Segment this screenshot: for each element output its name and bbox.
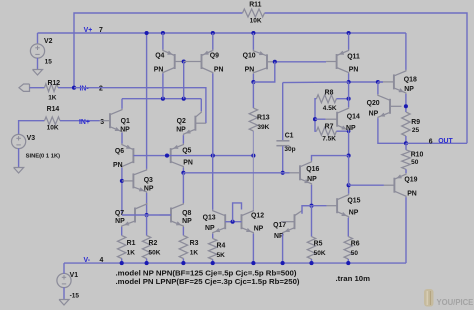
svg-text:.tran 10m: .tran 10m <box>336 276 371 283</box>
svg-text:-15: -15 <box>70 292 80 299</box>
svg-text:25: 25 <box>412 127 420 134</box>
wire Q11 collector row <box>349 81 383 83</box>
svg-text:Q18: Q18 <box>404 76 417 83</box>
svg-text:15: 15 <box>45 59 53 66</box>
ground below V2 <box>33 70 43 76</box>
wire Q5 collector down <box>182 168 184 173</box>
wire Q11 collector to R8 junction <box>348 82 350 99</box>
label model PNP directive <box>116 279 300 286</box>
node R5 rail junction <box>309 261 313 265</box>
svg-text:Q12: Q12 <box>251 213 264 220</box>
wire Q4 emitter <box>162 33 164 50</box>
transistor Q14 <box>326 107 360 132</box>
svg-text:Q20: Q20 <box>367 100 380 107</box>
svg-text:50: 50 <box>411 159 419 166</box>
node Q12 diode junction <box>231 220 235 224</box>
resistor R10 <box>402 150 424 170</box>
svg-text:PN: PN <box>214 66 224 73</box>
node V+ Q10 junction <box>251 31 255 35</box>
wire Q10 diode connection <box>253 62 274 82</box>
wire output row <box>406 142 467 144</box>
wire Q19 base bus <box>349 184 384 186</box>
svg-text:NP: NP <box>115 218 125 225</box>
wire Q11 collector down <box>348 74 350 83</box>
svg-text:OUT: OUT <box>438 138 453 145</box>
transistor Q13 <box>203 210 233 234</box>
svg-text:R13: R13 <box>257 115 270 122</box>
wire V+ corner to Q18 collector <box>405 33 407 70</box>
node R7 Q14 emitter junction <box>347 129 351 133</box>
svg-text:NP: NP <box>176 126 186 133</box>
wire Q2 collector up <box>200 99 202 112</box>
wire output to R10 <box>405 143 407 150</box>
voltage source V2 <box>30 38 52 65</box>
svg-text:30p: 30p <box>284 146 295 153</box>
transistor Q20 <box>367 94 402 118</box>
wire Q12 diode loop <box>233 203 242 222</box>
node Q9 collector junction <box>211 154 215 158</box>
wire Q7 Q8 base bus <box>122 214 171 216</box>
transistor Q15 <box>327 194 361 218</box>
svg-text:Q6: Q6 <box>115 148 124 155</box>
wire Q13 collector up <box>212 156 214 210</box>
node V+ Q3 junction <box>145 31 149 35</box>
ground below V3 <box>14 168 24 174</box>
svg-text:7: 7 <box>99 27 103 34</box>
wire Q18 base <box>378 81 383 83</box>
svg-text:50K: 50K <box>149 250 161 257</box>
wire R7 right <box>336 130 348 132</box>
svg-text:R6: R6 <box>351 240 360 247</box>
resistor R13 <box>249 108 270 131</box>
label OUT net <box>429 138 454 145</box>
wire Q18 emitter down <box>405 94 407 112</box>
resistor R1 <box>118 236 136 259</box>
transistor Q8 <box>160 203 193 227</box>
resistor R9 <box>402 112 421 136</box>
wire port to R12 <box>30 87 45 89</box>
svg-text:Q11: Q11 <box>347 53 360 60</box>
svg-text:Q9: Q9 <box>210 53 219 60</box>
node C1 bottom junction <box>281 171 285 175</box>
svg-text:Q7: Q7 <box>115 210 124 217</box>
wire Q8 collector up <box>182 173 184 203</box>
svg-text:NP: NP <box>120 126 130 133</box>
svg-text:R5: R5 <box>314 240 323 247</box>
label SINE value of V3 <box>26 154 61 160</box>
node tail junction <box>145 213 149 217</box>
svg-text:NP: NP <box>205 225 215 232</box>
wire second stage bus <box>183 172 289 174</box>
svg-text:10K: 10K <box>250 18 262 25</box>
svg-text:R2: R2 <box>149 240 158 247</box>
wire R5 column <box>311 206 313 237</box>
svg-text:NP: NP <box>369 111 379 118</box>
wire R6 to rail <box>347 259 349 263</box>
wire Q12 collector up <box>252 209 254 211</box>
wire Q15 emitter to R6 <box>347 218 349 237</box>
wire Q10 emitter <box>252 33 254 50</box>
wire IN- to Q2 base <box>74 88 206 124</box>
svg-text:Q5: Q5 <box>182 148 191 155</box>
resistor R11 <box>243 2 265 25</box>
svg-text:Q1: Q1 <box>121 118 130 125</box>
svg-text:V1: V1 <box>70 272 79 279</box>
svg-text:Q15: Q15 <box>347 197 360 204</box>
node Q11 collector junction <box>347 80 351 84</box>
svg-text:NP: NP <box>144 186 154 193</box>
transistor Q12 <box>242 210 265 234</box>
wire Q14 collector up <box>348 99 350 108</box>
wire R4 to rail <box>212 260 214 264</box>
label V- net <box>84 257 104 264</box>
svg-text:1K: 1K <box>127 250 136 257</box>
transistor Q16 <box>290 161 320 185</box>
svg-text:PN: PN <box>183 160 193 167</box>
wire Q16 emitter down <box>311 185 313 206</box>
node Q20 base junction <box>404 104 408 108</box>
wire Q6 collector down <box>121 168 123 215</box>
resistor R4 <box>209 239 226 260</box>
wire R5 to rail <box>311 259 313 263</box>
svg-text:V3: V3 <box>27 135 36 142</box>
capacitor C1 <box>276 132 295 152</box>
wire top feedback right segment <box>265 13 468 143</box>
svg-text:NP: NP <box>307 176 317 183</box>
svg-text:NP: NP <box>254 225 264 232</box>
wire Q9 emitter <box>212 33 214 50</box>
wire Q17 emitter to rail <box>282 234 284 263</box>
svg-text:R12: R12 <box>48 80 61 87</box>
ground below V1 <box>59 300 69 306</box>
svg-text:NP: NP <box>404 86 414 93</box>
wire Q14 base <box>315 118 326 120</box>
svg-text:V2: V2 <box>44 38 53 45</box>
wire Q3 emitter down to mirror <box>146 193 148 215</box>
svg-text:NP: NP <box>349 210 359 217</box>
wire C1 branch top <box>283 81 349 84</box>
svg-text:PN: PN <box>245 66 255 73</box>
svg-text:39K: 39K <box>257 124 269 131</box>
wire V+ to Q3 collector <box>146 33 148 169</box>
wire mirror bases to bus <box>183 62 185 99</box>
wire Q19 collector to rail <box>405 197 407 263</box>
node Q4 collector junction <box>161 97 165 101</box>
wire Q13 emitter to R4 <box>212 234 214 239</box>
wire R8 left column <box>315 99 316 132</box>
wire Q1 emitter to Q6 emitter <box>121 133 123 144</box>
wire R1 to rail <box>121 259 123 264</box>
svg-text:R4: R4 <box>217 243 226 250</box>
transistor Q11 <box>326 50 360 74</box>
svg-text:1K: 1K <box>190 250 199 257</box>
node Q12 rail junction <box>251 261 255 265</box>
wire V+ rail pin 7 <box>38 32 406 34</box>
node Q15 base junction <box>309 204 313 208</box>
svg-text:R7: R7 <box>325 124 334 131</box>
resistor R7 <box>316 124 336 143</box>
svg-text:R3: R3 <box>190 240 199 247</box>
svg-text:NP: NP <box>346 125 356 132</box>
label V+ net <box>84 27 103 34</box>
resistor R14 <box>45 106 61 131</box>
svg-text:R14: R14 <box>47 106 60 113</box>
node R4 rail junction <box>211 261 215 265</box>
svg-text:R10: R10 <box>411 152 424 159</box>
node bias column junction <box>251 154 255 158</box>
node Q10 collector diode junction <box>251 80 255 84</box>
transistor Q17 <box>273 210 302 241</box>
wire V3 minus lead <box>18 148 20 167</box>
transistor Q4 <box>154 50 184 74</box>
label IN- net <box>80 85 104 92</box>
wire Q9 collector down <box>212 74 214 156</box>
svg-text:50: 50 <box>351 250 359 257</box>
wire Q7 emitter to R1 <box>121 227 123 236</box>
transistor Q19 <box>384 173 418 197</box>
resistor R2 <box>142 236 160 259</box>
transistor Q2 <box>176 111 206 135</box>
svg-text:.model NP NPN(BF=125 Cje=.5p C: .model NP NPN(BF=125 Cje=.5p Cjc=.5p Rb=… <box>116 270 297 277</box>
resistor R3 <box>179 236 198 259</box>
node V+ Q11 junction <box>347 31 351 35</box>
node Q5 base junction <box>165 154 169 158</box>
svg-text:C1: C1 <box>285 132 294 139</box>
svg-text:IN+: IN+ <box>79 119 90 126</box>
transistor Q5 <box>167 144 193 168</box>
voltage source V3 <box>12 134 36 148</box>
svg-text:4.5K: 4.5K <box>323 105 337 112</box>
svg-text:PN: PN <box>154 66 164 73</box>
svg-text:IN-: IN- <box>80 85 90 92</box>
transistor Q1 <box>100 109 131 134</box>
svg-text:Q2: Q2 <box>177 118 186 125</box>
node Q4 Q9 base junction <box>182 59 186 63</box>
node Q3 base junction <box>120 179 124 183</box>
wire Q2 emitter to Q5 emitter <box>182 135 184 143</box>
resistor R12 <box>45 80 61 101</box>
svg-text:Q13: Q13 <box>203 215 216 222</box>
svg-text:1K: 1K <box>48 95 57 102</box>
wire Q20 collector up <box>377 82 379 94</box>
resistor R5 <box>307 237 326 259</box>
wire tail node to R2 <box>146 215 148 236</box>
svg-text:Q8: Q8 <box>182 210 191 217</box>
node second-stage takeoff junction <box>181 171 185 175</box>
svg-text:7.5K: 7.5K <box>322 135 336 142</box>
node Q19 base row junction <box>347 183 351 187</box>
voltage source V1 <box>57 272 79 299</box>
wire Q12 emitter to rail <box>252 234 254 263</box>
wire Q1 collector up <box>121 99 123 109</box>
svg-text:Q16: Q16 <box>306 166 319 173</box>
port flag IN- input <box>19 84 30 91</box>
wire first-stage collector bus <box>122 98 201 100</box>
node Q20 collector junction <box>376 80 380 84</box>
svg-text:6: 6 <box>429 139 433 146</box>
wire R13 to Q12 collector <box>252 131 254 210</box>
wire top feedback left segment <box>74 13 243 88</box>
wire Q14 emitter down <box>348 131 350 155</box>
node V+ Q9 junction <box>211 31 215 35</box>
node R8 Q14 collector junction <box>347 97 351 101</box>
node R2 rail junction <box>145 261 149 265</box>
svg-text:PN: PN <box>349 67 359 74</box>
wire R2 to rail <box>146 259 148 264</box>
wire Q15 collector up <box>348 185 350 194</box>
node Q17 rail junction <box>281 261 285 265</box>
svg-text:R1: R1 <box>127 240 136 247</box>
wire Q15 base bus <box>302 205 327 207</box>
wire V- rail pin 4 <box>64 262 406 264</box>
svg-text:Q19: Q19 <box>404 177 417 184</box>
node R3 rail junction <box>181 261 185 265</box>
wire V1 to V- rail <box>63 263 65 274</box>
svg-text:Q10: Q10 <box>243 53 256 60</box>
wire R3 to rail <box>182 259 184 264</box>
wire R10 to Q19 emitter <box>405 169 407 173</box>
transistor Q3 <box>122 169 154 193</box>
svg-text:NP: NP <box>182 218 192 225</box>
node IN- junction <box>72 86 76 90</box>
wire Q16 collector up and over <box>312 156 349 161</box>
wire cascode base bus <box>133 155 253 157</box>
wire Q12 Q13 base bus <box>225 221 241 223</box>
wire Q4 collector down <box>162 74 164 99</box>
wire Q17 base bus <box>281 221 295 223</box>
resistor R8 <box>316 89 336 111</box>
wire Q17 collector up <box>302 206 312 214</box>
transistor Q18 <box>383 70 417 94</box>
wire V2 to V+ rail <box>37 33 39 44</box>
wire C1 column <box>282 83 284 141</box>
wire Q8 emitter to R3 <box>182 227 184 236</box>
wire V3 to R14 <box>19 121 45 135</box>
svg-text:V-: V- <box>84 257 91 264</box>
svg-text:Q3: Q3 <box>144 177 153 184</box>
node Q16 collector row junction <box>347 154 351 158</box>
transistor Q6 <box>113 144 133 169</box>
svg-text:10K: 10K <box>47 124 59 131</box>
resistor R6 <box>344 237 360 259</box>
svg-text:.model PN LPNP(BF=25 Cje=.3p C: .model PN LPNP(BF=25 Cje=.3p Cjc=1.5p Rb… <box>116 279 300 286</box>
svg-text:R8: R8 <box>325 89 334 96</box>
svg-text:SINE(0 1 1K): SINE(0 1 1K) <box>26 154 61 160</box>
node R6 rail junction <box>346 261 350 265</box>
svg-text:Q17: Q17 <box>273 222 286 229</box>
label model NPN directive <box>116 270 297 277</box>
wire C1 bottom <box>282 146 284 173</box>
svg-text:V+: V+ <box>84 27 93 34</box>
logo youspice watermark <box>424 289 474 307</box>
svg-text:2: 2 <box>99 85 103 92</box>
transistor Q7 <box>115 203 147 227</box>
svg-text:Q14: Q14 <box>347 113 360 120</box>
wire V2 minus lead <box>37 58 39 70</box>
wire Q11 emitter <box>348 33 350 50</box>
svg-text:5K: 5K <box>217 252 226 259</box>
node Q14 base junction <box>313 117 317 121</box>
node R1 rail junction <box>120 261 124 265</box>
svg-text:3: 3 <box>100 119 104 126</box>
wire Q10 base bus to Q11 <box>275 61 326 63</box>
svg-text:Q4: Q4 <box>155 53 164 60</box>
svg-text:PN: PN <box>113 162 123 169</box>
wire mid column <box>348 156 350 186</box>
transistor Q10 <box>243 50 275 74</box>
node Q10 Q11 base junction <box>273 60 277 64</box>
wire R8 right <box>336 98 348 100</box>
wire Q20 emitter to output <box>378 118 406 143</box>
wire R14 to Q1 base <box>60 120 100 122</box>
svg-text:YOU/PICE: YOU/PICE <box>437 297 474 307</box>
svg-text:50K: 50K <box>314 250 326 257</box>
wire Q10 collector to R13 <box>252 82 254 108</box>
label IN+ net <box>79 119 104 126</box>
wire V1 minus lead <box>63 287 65 299</box>
svg-text:R9: R9 <box>411 119 420 126</box>
node mirror base junction lower <box>182 97 186 101</box>
svg-text:R11: R11 <box>249 2 261 9</box>
wire R12 to IN- node <box>58 87 74 89</box>
svg-text:4: 4 <box>100 257 104 264</box>
wire R9 to output node <box>405 136 407 143</box>
node V+ Q4 junction <box>161 31 165 35</box>
wire Q10 collector down <box>252 74 254 82</box>
svg-text:PN: PN <box>407 190 417 197</box>
node output junction <box>404 141 408 145</box>
label tran directive <box>336 276 371 283</box>
transistor Q9 <box>184 50 224 74</box>
